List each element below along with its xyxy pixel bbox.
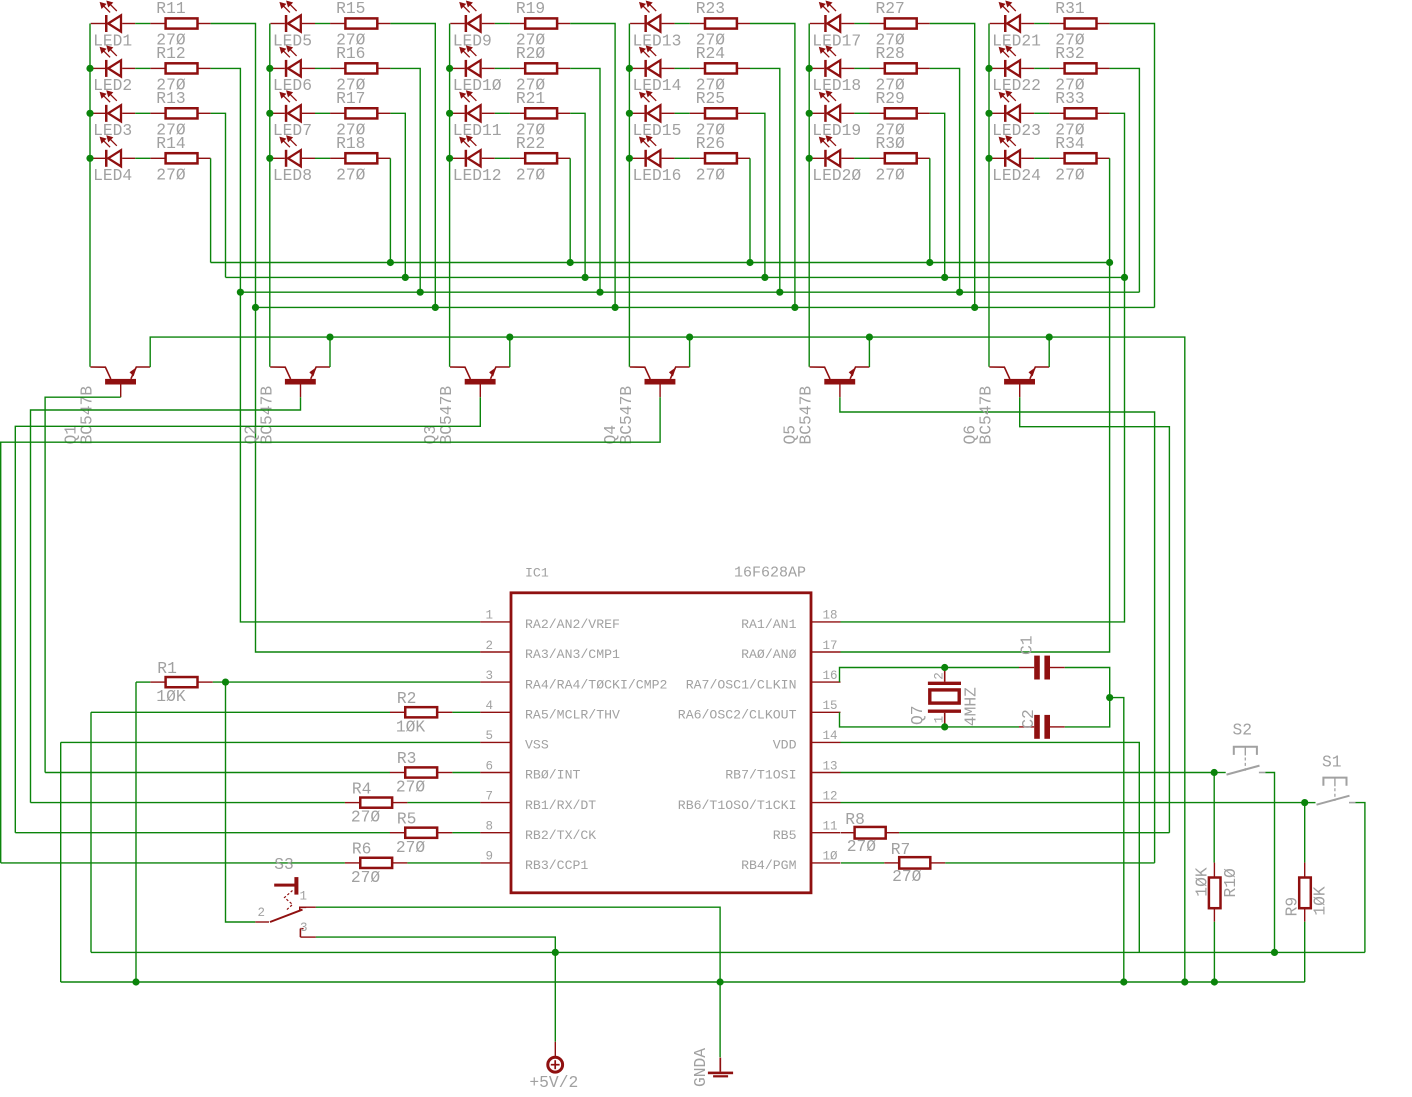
svg-text:27Ø: 27Ø [892, 867, 922, 886]
resistor R5 [390, 828, 453, 838]
value 270 R19 [516, 31, 546, 50]
pin number 2 Q7 [932, 672, 946, 680]
wire RB0 net [45, 772, 390, 774]
label R25 [696, 89, 725, 108]
value 10K R10 [1192, 867, 1211, 897]
svg-text:27Ø: 27Ø [876, 165, 906, 184]
wire LED column bus [808, 24, 810, 367]
IC U1 16F628AP body [511, 593, 811, 893]
svg-text:13: 13 [823, 759, 838, 773]
junction [941, 274, 948, 281]
value 270 R18 [336, 165, 366, 184]
label Q6 [961, 425, 980, 445]
wire [930, 68, 960, 292]
wire +5V riser [90, 712, 92, 952]
wire [1110, 68, 1140, 292]
label LED3 [93, 121, 132, 140]
label LED17 [812, 31, 861, 50]
svg-text:7: 7 [485, 789, 493, 803]
pin 14 lead [811, 741, 841, 743]
resistor R19 [510, 18, 570, 28]
label R10 [1221, 868, 1240, 898]
transistor Q2 [270, 367, 330, 397]
svg-text:R33: R33 [1055, 89, 1084, 108]
label R12 [156, 44, 185, 63]
LED LED24 [990, 136, 1034, 167]
svg-text:R34: R34 [1055, 134, 1084, 153]
LED LED22 [990, 46, 1034, 77]
svg-text:17: 17 [823, 639, 838, 653]
svg-text:RB5: RB5 [773, 828, 797, 843]
label R13 [156, 89, 185, 108]
svg-text:18: 18 [823, 609, 838, 623]
LED LED20 [810, 136, 855, 167]
wire [1305, 802, 1316, 804]
svg-text:4MHZ: 4MHZ [962, 687, 981, 726]
value 270 R30 [876, 165, 906, 184]
wire emitter GND bus [150, 337, 1185, 982]
resistor R29 [870, 108, 930, 118]
pin number 14 [823, 729, 838, 743]
svg-text:VSS: VSS [525, 738, 549, 753]
junction [266, 155, 273, 162]
LED LED17 [810, 1, 855, 32]
svg-text:2: 2 [485, 639, 493, 653]
label R33 [1055, 89, 1084, 108]
pin 12 lead [811, 802, 841, 804]
label +5V/2 [529, 1073, 578, 1092]
svg-text:BC547B: BC547B [977, 386, 996, 445]
label LED1 [93, 31, 132, 50]
pin number 9 [485, 850, 493, 864]
wire [135, 67, 150, 69]
value 270 R20 [516, 75, 546, 94]
pin number 3 [485, 669, 493, 683]
value 270 R28 [876, 75, 906, 94]
pin name RB1/RX/DT [525, 798, 596, 813]
pin name RA5/MCLR/THV [525, 708, 620, 723]
wire [211, 113, 226, 277]
svg-text:S1: S1 [1322, 753, 1342, 772]
wire [315, 157, 330, 159]
wire [1213, 773, 1215, 863]
pin number 1 [485, 609, 493, 623]
svg-text:RBØ/INT: RBØ/INT [525, 768, 580, 783]
resistor R3 [390, 767, 453, 777]
svg-text:R7: R7 [891, 840, 911, 859]
resistor R14 [150, 153, 210, 163]
transistor Q4 [630, 367, 690, 397]
value 270 R12 [156, 75, 186, 94]
label LED5 [273, 31, 312, 50]
svg-text:R6: R6 [352, 840, 372, 859]
value 10K R2 [396, 717, 426, 736]
svg-text:BC547B: BC547B [437, 386, 456, 445]
junction [956, 289, 963, 296]
svg-text:2: 2 [258, 906, 266, 920]
label R11 [156, 0, 185, 18]
resistor R6 [345, 858, 408, 868]
label R32 [1055, 44, 1084, 63]
svg-text:RA1/AN1: RA1/AN1 [741, 617, 796, 632]
junction [626, 65, 633, 72]
svg-text:16F628AP: 16F628AP [734, 565, 806, 582]
pin 13 lead [811, 772, 841, 774]
wire [315, 67, 330, 69]
wire [1265, 773, 1274, 953]
wire +5V to R2 [91, 711, 390, 713]
wire [1034, 67, 1049, 69]
label C1 [1018, 635, 1037, 655]
value BC547B Q4 [617, 386, 636, 445]
wire [675, 112, 690, 114]
wire [1304, 803, 1306, 863]
value 270 R34 [1055, 165, 1085, 184]
pin 2 lead [480, 651, 511, 653]
junction [941, 723, 948, 730]
junction [626, 155, 633, 162]
wire RB1 net [31, 802, 345, 804]
junction [985, 65, 992, 72]
pin name VDD [773, 738, 797, 753]
label Q7 [908, 705, 927, 725]
wire RB7 net [841, 772, 1215, 774]
junction [387, 259, 394, 266]
wire [136, 681, 150, 683]
LED LED3 [91, 91, 136, 122]
label LED11 [453, 121, 502, 140]
wire [452, 832, 480, 834]
value 270 R26 [696, 165, 726, 184]
wire RA2 net [211, 68, 481, 622]
label LED22 [992, 76, 1041, 95]
label R19 [516, 0, 545, 18]
wire [749, 158, 751, 262]
svg-text:3: 3 [300, 921, 308, 935]
pin name RA4/RA4/T0CKI/CMP2 [525, 677, 667, 692]
value 10K R9 [1311, 886, 1330, 916]
junction [746, 259, 753, 266]
svg-text:LED16: LED16 [633, 166, 682, 185]
wire [495, 67, 510, 69]
resistor R13 [150, 108, 210, 118]
junction [1271, 949, 1278, 956]
wire RA0 net [841, 158, 1110, 652]
wire [675, 67, 690, 69]
svg-text:R8: R8 [845, 810, 865, 829]
svg-text:+5V/2: +5V/2 [529, 1073, 578, 1092]
svg-text:R23: R23 [696, 0, 725, 18]
LED LED12 [450, 136, 495, 167]
junction [1106, 259, 1113, 266]
label R17 [336, 89, 365, 108]
label R20 [516, 44, 546, 63]
wire [854, 157, 869, 159]
label LED16 [633, 166, 682, 185]
wire [495, 23, 510, 25]
wire Q2 base [31, 397, 301, 802]
resistor R30 [870, 153, 930, 163]
pin number 1 Q7 [933, 716, 947, 724]
wire [329, 337, 331, 367]
pin name RA0/AN0 [741, 647, 796, 662]
pin 17 lead [811, 651, 841, 653]
junction [1211, 978, 1218, 985]
ground GNDA symbol [708, 1058, 733, 1078]
LED LED1 [91, 1, 136, 32]
label S3 [274, 855, 294, 874]
pin number 8 [485, 820, 493, 834]
LED LED18 [810, 46, 855, 77]
svg-text:R24: R24 [696, 44, 725, 63]
label R21 [516, 89, 545, 108]
wire [675, 157, 690, 159]
junction [806, 155, 813, 162]
value 270 R31 [1055, 31, 1085, 50]
wire RA4 to S3 [226, 682, 256, 922]
svg-text:27Ø: 27Ø [1055, 165, 1085, 184]
label R6 [352, 840, 372, 859]
wire ROW3 bus [226, 276, 1125, 278]
wire [1048, 337, 1050, 367]
pin name RB6/T1OSO/T1CKI [678, 798, 797, 813]
wire [509, 337, 511, 367]
LED LED14 [630, 46, 675, 77]
capacitor C1 [1019, 656, 1065, 680]
svg-text:27Ø: 27Ø [351, 868, 381, 887]
label Q2 [241, 425, 260, 445]
resistor R28 [870, 63, 930, 73]
label R18 [336, 134, 365, 153]
svg-text:27Ø: 27Ø [696, 165, 726, 184]
wire ROW2 bus [240, 291, 1139, 293]
svg-text:27Ø: 27Ø [396, 778, 426, 797]
wire [1034, 112, 1049, 114]
transistor Q5 [810, 367, 870, 397]
junction [1121, 274, 1128, 281]
label R34 [1055, 134, 1084, 153]
label S1 [1322, 753, 1342, 772]
svg-text:R15: R15 [336, 0, 365, 18]
wire [315, 112, 330, 114]
svg-text:R17: R17 [336, 89, 365, 108]
wire GND bus [61, 981, 1305, 983]
svg-text:1ØK: 1ØK [1311, 886, 1330, 916]
label Q5 [781, 425, 800, 445]
pin number 7 [485, 789, 493, 803]
wire [452, 711, 480, 713]
junction [596, 289, 603, 296]
svg-text:R22: R22 [516, 134, 545, 153]
label LED20 [812, 166, 861, 185]
wire VSS to GND bus [60, 742, 62, 982]
wire cap common [1065, 668, 1110, 727]
wire [495, 112, 510, 114]
value 270 R22 [516, 165, 546, 184]
junction [446, 65, 453, 72]
label R3 [397, 749, 417, 768]
wire [854, 112, 869, 114]
LED LED21 [990, 1, 1034, 32]
LED LED11 [450, 91, 495, 122]
wire [569, 158, 571, 262]
svg-text:RB7/T1OSI: RB7/T1OSI [725, 768, 796, 783]
capacitor C2 [1019, 715, 1065, 739]
svg-text:16: 16 [823, 669, 838, 683]
wire R1 to GND bus [135, 682, 137, 982]
wire RA4 net [213, 681, 480, 683]
pin 1 lead [480, 621, 511, 623]
value 270 R29 [876, 120, 906, 139]
svg-text:RB3/CCP1: RB3/CCP1 [525, 858, 588, 873]
svg-text:R28: R28 [876, 44, 905, 63]
value 270 R21 [516, 120, 546, 139]
wire [1304, 922, 1306, 982]
junction [776, 289, 783, 296]
value BC547B Q5 [797, 386, 816, 445]
wire [675, 23, 690, 25]
label R8 [845, 810, 865, 829]
svg-text:1: 1 [933, 716, 947, 724]
wire [210, 158, 212, 262]
resistor R33 [1049, 108, 1109, 118]
pin number 11 [823, 820, 838, 834]
svg-text:2: 2 [932, 672, 946, 680]
svg-text:R4: R4 [352, 779, 372, 798]
resistor R16 [330, 63, 390, 73]
value 270 R25 [696, 120, 726, 139]
junction [237, 289, 244, 296]
svg-text:9: 9 [485, 850, 493, 864]
wire [452, 772, 480, 774]
LED LED2 [91, 46, 136, 77]
svg-text:LED12: LED12 [453, 166, 502, 185]
pin name RA1/AN1 [741, 617, 796, 632]
svg-text:Q7: Q7 [908, 705, 927, 725]
label R24 [696, 44, 725, 63]
label LED18 [812, 76, 861, 95]
LED LED6 [271, 46, 316, 77]
pin number 15 [823, 699, 838, 713]
resistor R23 [690, 18, 750, 28]
svg-text:BC547B: BC547B [78, 386, 97, 445]
junction [791, 304, 798, 311]
pin 6 lead [480, 772, 511, 774]
svg-text:LED8: LED8 [273, 166, 312, 185]
pin number 1 S3 [300, 889, 308, 903]
value 270 R15 [336, 31, 366, 50]
wire VDD net [841, 742, 1140, 952]
svg-text:RB6/T1OSO/T1CKI: RB6/T1OSO/T1CKI [678, 798, 797, 813]
label R7 [891, 840, 911, 859]
value 270 R5 [396, 838, 426, 857]
svg-text:14: 14 [823, 729, 838, 743]
pin 11 lead [811, 832, 841, 834]
value 270 R11 [156, 31, 186, 50]
switch S2 [1227, 747, 1266, 775]
svg-text:5: 5 [485, 729, 493, 743]
wire [495, 157, 510, 159]
transistor Q3 [450, 367, 510, 397]
label LED14 [633, 76, 682, 95]
wire [689, 337, 691, 367]
wire Q5 base [840, 397, 1155, 863]
value 10K R1 [156, 687, 186, 706]
svg-text:R16: R16 [336, 44, 365, 63]
svg-text:LED4: LED4 [93, 166, 132, 185]
svg-text:R31: R31 [1055, 0, 1084, 18]
resistor R25 [690, 108, 750, 118]
junction [266, 110, 273, 117]
power +5V symbol [548, 1042, 563, 1072]
junction [326, 334, 333, 341]
crystal Q7 [928, 668, 961, 727]
LED LED19 [810, 91, 855, 122]
wire Q6 base [1020, 397, 1170, 833]
value 4MHZ [962, 687, 981, 726]
wire [1213, 922, 1215, 982]
svg-text:R32: R32 [1055, 44, 1084, 63]
wire S3 to GND [316, 907, 720, 1057]
svg-text:R11: R11 [156, 0, 185, 18]
junction [626, 110, 633, 117]
label IC1 [525, 566, 549, 581]
resistor R31 [1049, 18, 1109, 28]
junction [432, 304, 439, 311]
wire [570, 68, 600, 292]
label LED9 [453, 31, 492, 50]
pin number 16 [823, 669, 838, 683]
label LED10 [453, 76, 502, 95]
wire RB5 net [899, 832, 1169, 834]
label Q1 [62, 425, 81, 445]
svg-text:R13: R13 [156, 89, 185, 108]
pin name RA2/AN2/VREF [525, 617, 620, 632]
label LED6 [273, 76, 312, 95]
pin 4 lead [480, 711, 511, 713]
pin number 3 S3 [300, 921, 308, 935]
wire +5V bus [91, 951, 1365, 953]
svg-text:LED2Ø: LED2Ø [812, 166, 861, 185]
svg-text:R27: R27 [876, 0, 905, 18]
junction [806, 110, 813, 117]
junction [506, 334, 513, 341]
label LED24 [992, 166, 1041, 185]
svg-text:27Ø: 27Ø [336, 165, 366, 184]
resistor R18 [330, 153, 390, 163]
pin 16 lead [811, 681, 841, 683]
svg-text:RA4/RA4/TØCKI/CMP2: RA4/RA4/TØCKI/CMP2 [525, 677, 667, 692]
svg-text:27Ø: 27Ø [847, 837, 877, 856]
pin name RA3/AN3/CMP1 [525, 647, 620, 662]
svg-text:1ØK: 1ØK [1192, 867, 1211, 897]
resistor R4 [345, 798, 408, 808]
svg-text:1Ø: 1Ø [823, 850, 839, 864]
resistor R11 [150, 18, 210, 28]
wire Q3 base [15, 397, 480, 833]
svg-text:BC547B: BC547B [617, 386, 636, 445]
transistor Q6 [989, 367, 1049, 397]
value 270 R8 [847, 837, 877, 856]
svg-text:4: 4 [485, 699, 493, 713]
value BC547B Q1 [78, 386, 97, 445]
pin 7 lead [480, 802, 511, 804]
wire [868, 337, 870, 367]
svg-text:R1Ø: R1Ø [1221, 868, 1240, 898]
wire RA1 net [841, 113, 1125, 622]
svg-text:RB4/PGM: RB4/PGM [741, 858, 796, 873]
resistor R10 [1209, 863, 1221, 922]
